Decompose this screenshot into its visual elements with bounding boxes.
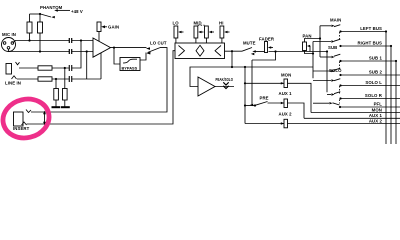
wire gang mid pots	[198, 24, 205, 26]
resistor R1	[27, 14, 32, 41]
wire feed line to aux vertical	[232, 66, 313, 68]
svg-text:SUB: SUB	[328, 45, 337, 50]
node post fader	[274, 50, 276, 52]
wire mic cold	[9, 49, 70, 52]
node R1 to mic hot	[28, 39, 30, 41]
wire gang sub	[339, 62, 341, 71]
wire line bottom to cold node	[72, 78, 101, 80]
op-amp U1 mic preamp	[93, 38, 111, 57]
potentiometer AUX 1	[268, 91, 305, 118]
node phantom junction	[39, 13, 41, 15]
op-amp peak detector	[198, 77, 215, 96]
node R2 to mic cold	[39, 50, 41, 52]
svg-text:RIGHT BUS: RIGHT BUS	[357, 41, 382, 46]
wire bus vertical 3	[395, 61, 397, 144]
svg-text:AUX 2: AUX 2	[279, 112, 293, 117]
svg-text:MON: MON	[281, 73, 291, 78]
svg-text:MIC IN: MIC IN	[2, 32, 16, 37]
wire fader output	[269, 51, 328, 53]
ground	[52, 106, 61, 108]
wire pan bottom to right feed	[305, 51, 314, 54]
wire mute to fader	[255, 51, 265, 53]
low cut filter block	[120, 58, 140, 71]
svg-text:LINE IN: LINE IN	[5, 81, 21, 86]
node pan top feed	[319, 37, 321, 39]
svg-text:HI: HI	[219, 21, 224, 26]
wire gang main	[339, 32, 341, 41]
svg-text:BYPASS: BYPASS	[122, 65, 138, 70]
wire right feed vertical	[312, 42, 314, 79]
wire mic hot to preamp	[72, 40, 93, 42]
EQ block	[175, 43, 225, 59]
potentiometer LO	[173, 21, 184, 44]
connector INSERT (jack)	[13, 110, 46, 131]
resistor R2	[38, 14, 43, 52]
wire line bottom	[17, 78, 38, 80]
node pan bottom feed	[312, 52, 314, 54]
svg-text:MUTE: MUTE	[243, 40, 256, 45]
switch PRE	[244, 96, 269, 107]
switch LO CUT	[146, 47, 160, 54]
wire line top	[19, 67, 38, 69]
wire pan top to left feed	[305, 39, 321, 43]
svg-text:GAIN: GAIN	[108, 25, 119, 30]
annotation pink ellipse around INSERT	[0, 95, 53, 143]
wire gang solo-pfl	[339, 100, 341, 104]
node line-top joins hot	[80, 39, 82, 41]
wire line top after R3	[52, 67, 69, 69]
potentiometer HI	[219, 21, 230, 44]
svg-text:PFL: PFL	[374, 102, 383, 107]
wire line top to hot node	[72, 41, 81, 69]
node shunt top	[64, 67, 66, 69]
svg-text:SOLO: SOLO	[329, 68, 342, 73]
connector LINE IN (jack)	[5, 62, 21, 86]
potentiometer GAIN	[97, 22, 107, 41]
connector MIC IN (XLR)	[2, 32, 16, 52]
wire line bottom after R4	[52, 78, 69, 80]
wire down to feed line	[231, 51, 233, 67]
svg-text:PEAK/SOLO: PEAK/SOLO	[216, 77, 234, 82]
potentiometer MID freq	[205, 26, 215, 43]
wire bus vertical 1	[385, 32, 387, 145]
node post feed	[326, 50, 328, 52]
node bypass split	[113, 47, 115, 49]
node mon tap	[244, 82, 246, 84]
wire bus vertical 2	[390, 46, 392, 144]
node post-EQ	[231, 50, 233, 52]
switch SUB 2	[313, 68, 342, 76]
svg-text:AUX 2: AUX 2	[369, 119, 383, 124]
svg-text:SUB 1: SUB 1	[369, 56, 383, 61]
capacitor C1	[69, 38, 71, 43]
switch SOLO L	[313, 79, 342, 87]
ground	[61, 106, 70, 108]
svg-text:LEFT BUS: LEFT BUS	[360, 26, 382, 31]
svg-text:MON: MON	[372, 107, 382, 112]
wire mic hot	[13, 41, 70, 43]
svg-text:AUX 1: AUX 1	[369, 113, 383, 118]
capacitor C2	[69, 49, 71, 54]
wire post-fader tap	[252, 52, 276, 61]
resistor R6 shunt	[63, 68, 68, 107]
wire insert return to EQ	[27, 51, 176, 124]
node aux split	[231, 66, 233, 68]
resistor R4	[38, 77, 52, 81]
switch MUTE	[242, 40, 256, 55]
potentiometer PAN	[303, 33, 312, 51]
wire gang solo	[339, 86, 341, 94]
wire preamp output	[111, 47, 147, 49]
switch SUB 1	[320, 54, 342, 62]
switch MAIN R	[313, 39, 342, 47]
svg-text:SOLO L: SOLO L	[365, 80, 382, 85]
wire left feed vertical	[319, 26, 321, 57]
potentiometer AUX 2	[245, 112, 400, 128]
switch phantom S1	[41, 9, 71, 18]
wire post feed vertical	[326, 52, 328, 93]
resistor R5 shunt	[54, 79, 59, 107]
svg-text:PRE: PRE	[260, 96, 269, 101]
svg-text:PAN: PAN	[303, 33, 312, 38]
svg-text:PHANTOM: PHANTOM	[40, 5, 63, 10]
wire feedback	[100, 53, 102, 79]
LED PEAK/SOLO	[216, 77, 234, 89]
switch SOLO R	[327, 92, 342, 100]
wire post-fader feed down	[251, 60, 253, 105]
svg-text:SUB 2: SUB 2	[369, 70, 383, 75]
switch PFL	[313, 102, 341, 108]
wire filter to switch	[140, 53, 146, 61]
svg-text:LO CUT: LO CUT	[150, 41, 167, 46]
potentiometer MID gain	[194, 21, 204, 44]
potentiometer MON	[245, 73, 311, 113]
svg-text:INSERT: INSERT	[13, 126, 30, 131]
wire detector output	[215, 86, 234, 88]
wire to bypass filter	[114, 48, 120, 64]
svg-text:LO: LO	[173, 21, 180, 26]
svg-text:MAIN: MAIN	[330, 17, 341, 22]
svg-text:SOLO R: SOLO R	[365, 93, 383, 98]
svg-text:+48 V: +48 V	[71, 9, 83, 14]
wire aux feed vertical	[244, 67, 246, 124]
wire lo-cut output to insert send	[31, 48, 167, 112]
switch MAIN L	[320, 25, 342, 33]
resistor R3	[38, 66, 52, 70]
wire phantom bus	[30, 13, 41, 15]
node line-bottom joins cold	[86, 50, 88, 52]
fader FADER	[259, 36, 275, 52]
wire mic cold to preamp	[72, 51, 93, 53]
node shunt bottom	[55, 78, 57, 80]
capacitor C4	[69, 76, 71, 82]
svg-text:MID: MID	[194, 21, 202, 26]
svg-text:FADER: FADER	[259, 36, 275, 41]
capacitor C3	[69, 65, 71, 71]
wire EQ output	[225, 50, 243, 52]
wire peak detector loop	[190, 67, 232, 87]
svg-text:AUX 1: AUX 1	[279, 91, 293, 96]
